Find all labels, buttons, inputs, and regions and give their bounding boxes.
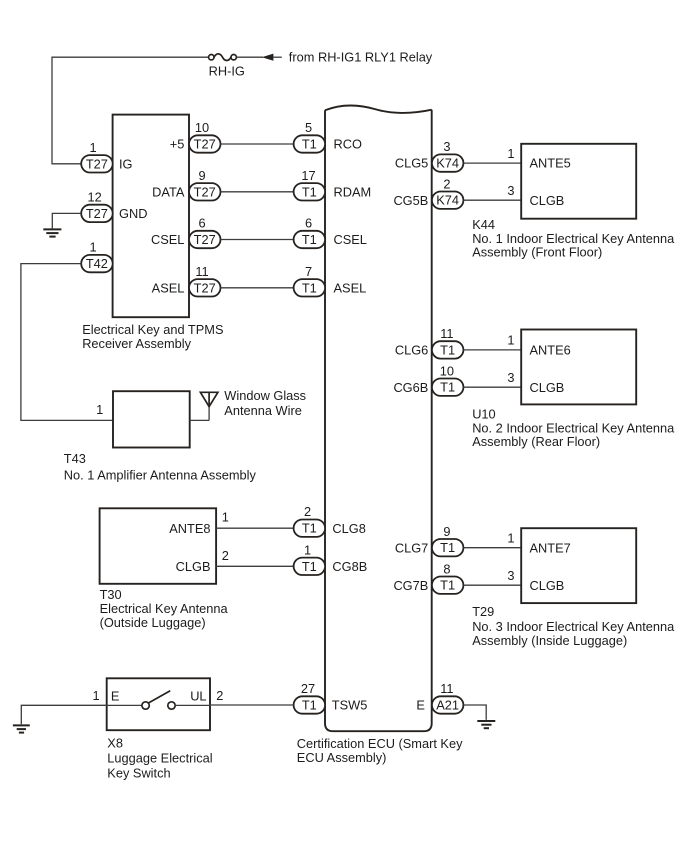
svg-text:11: 11 (440, 681, 453, 696)
svg-text:ASEL: ASEL (334, 280, 367, 295)
svg-text:8: 8 (443, 561, 450, 576)
connector T1 pin RDAM (294, 183, 326, 200)
svg-text:Window Glass: Window Glass (224, 388, 306, 403)
indoor antenna box K44 (No. 1 Indoor Electrical Key Antenna Assembly) (521, 144, 636, 219)
svg-text:3: 3 (507, 370, 514, 385)
svg-text:No. 3 Indoor Electrical Key An: No. 3 Indoor Electrical Key Antenna (472, 619, 675, 634)
svg-text:A21: A21 (436, 698, 459, 713)
svg-text:E: E (111, 688, 120, 703)
svg-text:Assembly (Front Floor): Assembly (Front Floor) (472, 245, 602, 260)
svg-text:CG7B: CG7B (393, 578, 428, 593)
svg-text:6: 6 (198, 216, 205, 231)
electrical key antenna box T30 (100, 508, 217, 584)
caption for U10 (472, 406, 675, 449)
connector T1 pin RCO (294, 135, 326, 152)
svg-text:CLG7: CLG7 (395, 540, 428, 555)
svg-text:5: 5 (305, 120, 312, 135)
svg-text:ANTE6: ANTE6 (530, 343, 571, 358)
luggage electrical key switch box X8 (107, 678, 210, 730)
svg-text:GND: GND (119, 206, 147, 221)
svg-text:2: 2 (304, 504, 311, 519)
wire CG7B to CLGB of T29 (463, 584, 521, 586)
window glass antenna symbol (200, 392, 218, 406)
connector T1 pin CG8B (294, 558, 326, 575)
wire from IG pin up and across to fuse RH-IG (52, 57, 209, 164)
svg-text:CG8B: CG8B (332, 559, 367, 574)
svg-text:ANTE8: ANTE8 (169, 521, 210, 536)
ground symbol (receiver GND) (43, 229, 61, 236)
svg-text:CLGB: CLGB (530, 193, 565, 208)
svg-text:K74: K74 (436, 193, 459, 208)
svg-text:CLG5: CLG5 (395, 156, 428, 171)
svg-text:CG6B: CG6B (393, 380, 428, 395)
label Window Glass Antenna Wire (224, 388, 306, 418)
arrowhead pointing left (from RH-IG1 RLY1 Relay) (262, 54, 282, 61)
svg-text:T27: T27 (194, 137, 216, 152)
receiver assembly box (Electrical Key and TPMS Receiver Assembly) (113, 115, 189, 318)
svg-text:RDAM: RDAM (334, 184, 372, 199)
svg-text:T42: T42 (86, 256, 108, 271)
svg-text:Assembly (Rear Floor): Assembly (Rear Floor) (472, 434, 600, 449)
svg-text:TSW5: TSW5 (332, 698, 368, 713)
svg-text:CSEL: CSEL (151, 232, 184, 247)
switch contact X8 (107, 691, 210, 709)
svg-text:1: 1 (507, 530, 514, 545)
svg-text:7: 7 (305, 264, 312, 279)
caption for T29 (472, 604, 675, 648)
svg-text:Assembly (Inside Luggage): Assembly (Inside Luggage) (472, 633, 627, 648)
svg-text:1: 1 (96, 402, 103, 417)
wire X8 E to ground (21, 705, 106, 724)
svg-text:1: 1 (507, 146, 514, 161)
svg-text:T27: T27 (194, 280, 216, 295)
svg-text:Electrical Key Antenna: Electrical Key Antenna (100, 601, 229, 616)
caption for certification ECU (297, 736, 463, 765)
svg-text:CLG6: CLG6 (395, 343, 428, 358)
svg-text:3: 3 (443, 139, 450, 154)
wire +5 to RCO (221, 143, 294, 145)
svg-text:IG: IG (119, 156, 133, 171)
caption for receiver assembly (82, 322, 223, 351)
svg-text:12: 12 (87, 190, 101, 205)
certification ECU box (Smart Key ECU Assembly) with wavy top and rounded bottom (325, 105, 432, 731)
fuse RH-IG (209, 54, 237, 61)
connector T27 pin GND (81, 205, 113, 222)
wire CG6B to CLGB of U10 (463, 386, 521, 388)
wire CLG5 to ANTE5 (463, 162, 521, 164)
wire T43 to antenna mast (190, 419, 209, 421)
connector T27 pin +5 (189, 135, 221, 152)
svg-text:11: 11 (440, 326, 453, 341)
connector T1 pin ASEL (294, 279, 326, 296)
svg-text:10: 10 (440, 363, 454, 378)
svg-text:No. 1 Amplifier Antenna Assemb: No. 1 Amplifier Antenna Assembly (64, 467, 257, 482)
svg-text:No. 2 Indoor Electrical Key An: No. 2 Indoor Electrical Key Antenna (472, 420, 675, 435)
svg-text:K44: K44 (472, 217, 495, 232)
wire CLG6 to ANTE6 (463, 349, 521, 351)
svg-text:ECU Assembly): ECU Assembly) (297, 750, 387, 765)
connector T1 pin CG6B (432, 379, 464, 396)
svg-text:3: 3 (507, 568, 514, 583)
amplifier antenna box T43 (113, 391, 190, 447)
connector A21 pin E (432, 696, 464, 713)
svg-text:T1: T1 (302, 137, 317, 152)
wire CLG7 to ANTE7 (463, 547, 521, 549)
svg-text:11: 11 (195, 264, 208, 279)
caption for X8 (107, 736, 212, 781)
svg-text:T1: T1 (302, 698, 317, 713)
connector T1 pin CG7B (432, 577, 464, 594)
svg-text:T1: T1 (302, 280, 317, 295)
svg-text:CG5B: CG5B (393, 193, 428, 208)
wire ASEL to ASEL (221, 287, 294, 289)
wire from fuse to arrow (236, 56, 263, 58)
svg-text:T27: T27 (194, 232, 216, 247)
svg-text:2: 2 (222, 548, 229, 563)
connector T27 pin CSEL (189, 231, 221, 248)
svg-text:T29: T29 (472, 604, 494, 619)
svg-text:17: 17 (301, 168, 315, 183)
connector T1 pin TSW5 (294, 696, 326, 713)
connector T1 pin CLG7 (432, 539, 464, 556)
wire DATA to RDAM (221, 191, 294, 193)
svg-text:Key Switch: Key Switch (107, 765, 170, 780)
svg-text:Certification ECU (Smart Key: Certification ECU (Smart Key (297, 736, 463, 751)
svg-text:T1: T1 (440, 380, 455, 395)
svg-text:2: 2 (216, 688, 223, 703)
svg-text:K74: K74 (436, 156, 459, 171)
svg-text:27: 27 (301, 681, 315, 696)
svg-text:RCO: RCO (334, 137, 362, 152)
svg-text:T1: T1 (302, 184, 317, 199)
svg-text:T27: T27 (194, 184, 216, 199)
svg-text:T1: T1 (302, 559, 317, 574)
svg-text:9: 9 (198, 168, 205, 183)
svg-text:9: 9 (443, 524, 450, 539)
svg-text:RH-IG: RH-IG (209, 63, 245, 78)
connector T27 pin ASEL (189, 279, 221, 296)
svg-text:CLGB: CLGB (530, 380, 565, 395)
svg-text:(Outside Luggage): (Outside Luggage) (100, 615, 206, 630)
ground symbol (X8) (13, 725, 30, 732)
svg-text:1: 1 (89, 140, 96, 155)
caption for T43 (64, 451, 257, 482)
connector K74 pin CG5B (432, 192, 464, 209)
svg-text:T1: T1 (302, 521, 317, 536)
wire CG5B to CLGB of K44 (463, 199, 521, 201)
svg-text:from RH-IG1 RLY1 Relay: from RH-IG1 RLY1 Relay (289, 50, 433, 65)
wire GND to ground (52, 213, 81, 228)
wire CSEL to CSEL (221, 239, 294, 241)
svg-text:T1: T1 (302, 232, 317, 247)
indoor antenna box T29 (No. 3 Indoor Electrical Key Antenna Assembly) (521, 528, 636, 603)
svg-text:U10: U10 (472, 406, 495, 421)
caption for K44 (472, 217, 675, 260)
antenna mast (208, 392, 210, 420)
wire T42 to T43 amplifier antenna (21, 264, 113, 421)
indoor antenna box U10 (No. 2 Indoor Electrical Key Antenna Assembly) (521, 330, 636, 405)
svg-text:1: 1 (222, 510, 229, 525)
svg-text:ANTE5: ANTE5 (530, 156, 571, 171)
wire CLGB to CG8B (216, 565, 294, 567)
svg-text:T43: T43 (64, 451, 86, 466)
caption for T30 (100, 587, 229, 630)
wire X8 UL to TSW5 (210, 704, 294, 706)
svg-text:CLGB: CLGB (176, 559, 211, 574)
connector T27 pin DATA (189, 183, 221, 200)
svg-text:T30: T30 (100, 587, 122, 602)
svg-text:CLGB: CLGB (530, 578, 565, 593)
wire E to ground (463, 705, 486, 720)
svg-text:CSEL: CSEL (334, 232, 367, 247)
svg-text:10: 10 (195, 120, 209, 135)
svg-text:6: 6 (305, 216, 312, 231)
svg-text:X8: X8 (107, 736, 123, 751)
svg-text:3: 3 (507, 183, 514, 198)
svg-text:1: 1 (304, 542, 311, 557)
svg-text:T27: T27 (86, 156, 108, 171)
svg-text:ASEL: ASEL (152, 280, 185, 295)
svg-text:1: 1 (89, 240, 96, 255)
svg-text:Antenna Wire: Antenna Wire (224, 403, 302, 418)
svg-text:T27: T27 (86, 206, 108, 221)
svg-text:Receiver Assembly: Receiver Assembly (82, 336, 191, 351)
svg-text:CLG8: CLG8 (332, 521, 365, 536)
svg-text:1: 1 (507, 333, 514, 348)
svg-text:1: 1 (92, 688, 99, 703)
svg-text:UL: UL (190, 688, 206, 703)
connector T42 pin 1 (81, 255, 113, 272)
connector T27 pin IG (81, 155, 113, 172)
svg-text:No. 1 Indoor Electrical Key An: No. 1 Indoor Electrical Key Antenna (472, 231, 675, 246)
svg-text:Luggage Electrical: Luggage Electrical (107, 751, 212, 766)
svg-text:ANTE7: ANTE7 (530, 540, 571, 555)
connector T1 pin CLG6 (432, 341, 464, 358)
svg-text:T1: T1 (440, 578, 455, 593)
connector K74 pin CLG5 (432, 154, 464, 171)
svg-text:E: E (416, 698, 425, 713)
wire ANTE8 to CLG8 (216, 527, 294, 529)
connector T1 pin CLG8 (294, 520, 326, 537)
svg-text:T1: T1 (440, 342, 455, 357)
svg-text:+5: +5 (170, 137, 185, 152)
svg-text:2: 2 (443, 176, 450, 191)
svg-text:DATA: DATA (152, 184, 185, 199)
connector T1 pin CSEL (294, 231, 326, 248)
ground symbol (ECU E) (477, 721, 495, 728)
svg-text:T1: T1 (440, 540, 455, 555)
svg-text:Electrical Key and TPMS: Electrical Key and TPMS (82, 322, 223, 337)
